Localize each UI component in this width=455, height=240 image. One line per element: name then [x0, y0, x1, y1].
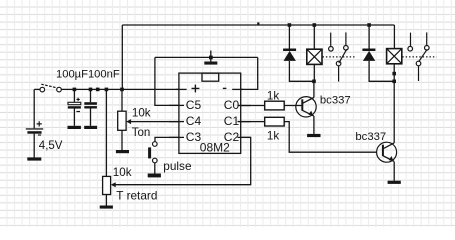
svg-text:C5: C5	[186, 98, 202, 112]
wire rail to pot1 top	[121, 89, 123, 111]
junction dot D2/K2/collector	[392, 80, 396, 84]
svg-text:4,5V: 4,5V	[39, 140, 63, 152]
wire C0 to R1	[241, 105, 265, 107]
svg-text:Ton: Ton	[132, 127, 151, 139]
potentiometer P1 10k Ton	[118, 106, 151, 138]
capacitor C2 100nF	[84, 102, 97, 108]
pin stubs left of IC	[169, 89, 187, 137]
ground P1	[116, 150, 129, 153]
wire relay coil K1 top stub	[313, 25, 315, 49]
wire top V+ rail	[122, 24, 394, 26]
battery B1 4,5V	[26, 121, 63, 152]
wire pot1 bottom to ground	[121, 130, 123, 150]
svg-text:08M2: 08M2	[200, 140, 230, 154]
svg-text:C0: C0	[224, 98, 240, 112]
svg-text:10k: 10k	[113, 166, 132, 179]
wire C2 to pot2 wiper	[115, 137, 251, 184]
wire diode D2 stem top	[368, 25, 370, 49]
svg-text:1k: 1k	[267, 90, 279, 103]
svg-text:bc337: bc337	[355, 131, 386, 143]
wire relay coil K2 top stub	[393, 25, 395, 49]
wire Q1 emitter to ground	[313, 116, 315, 134]
svg-text:C4: C4	[186, 114, 202, 128]
svg-text:T retard: T retard	[116, 189, 157, 203]
IC pin label plus	[192, 85, 200, 93]
ground Q1 emitter	[307, 134, 320, 137]
junction dot D1/K1/collector	[312, 80, 316, 84]
wire C1 to R2	[241, 121, 265, 123]
wire diode D2 bottom to junction	[369, 61, 394, 81]
wire Q2 emitter to ground	[393, 162, 395, 181]
ground battery	[27, 157, 41, 160]
relay contacts K1	[323, 32, 357, 81]
svg-text:bc337: bc337	[320, 94, 351, 106]
capacitor C1 100uF	[68, 98, 81, 112]
IC pin labels	[186, 98, 240, 154]
potentiometer P2 10k T retard	[103, 166, 158, 203]
wire diode D1 bottom to junction	[289, 61, 314, 81]
svg-text:C1: C1	[224, 114, 240, 128]
pin stubs right of IC	[232, 89, 251, 137]
wire R1 to Q1 base	[284, 105, 302, 107]
wire battery to switch	[34, 88, 40, 90]
wire C3 to pulse button	[155, 137, 179, 141]
wire 0V left drop to C5	[155, 57, 179, 105]
pin dot below K2	[392, 72, 396, 76]
transistor Q1 bc337	[296, 94, 351, 117]
wire 100uF bottom stem	[73, 109, 75, 126]
wire 100nF bottom stem	[90, 109, 92, 126]
wire Q2 collector long	[393, 81, 395, 143]
IC pin label minus	[223, 87, 227, 89]
ground Q2 emitter	[388, 181, 401, 184]
wire left drop from top rail to main rail	[121, 25, 123, 89]
wire battery bottom to ground	[33, 134, 35, 158]
wire 100uF top stem	[73, 89, 75, 102]
wire C4 from pot1 wiper	[130, 121, 179, 123]
relay contacts K2	[402, 32, 436, 81]
ground pulse	[148, 174, 161, 178]
wire battery top	[33, 89, 35, 128]
wire 0V right drop to minus pin	[241, 57, 258, 89]
op IC U1 PICAXE 08M2 body	[179, 73, 241, 153]
wire relay coil K2 bottom stub	[393, 64, 395, 82]
wire pulse button to ground	[154, 163, 156, 174]
svg-text:10k: 10k	[132, 106, 151, 119]
ground C2	[84, 126, 97, 129]
svg-text:100µF100nF: 100µF100nF	[56, 68, 120, 80]
diode D2	[362, 49, 375, 61]
wire switch to IC plus pin (main V+ rail)	[61, 88, 179, 90]
resistor R1 1k	[265, 90, 285, 110]
wire 0V rail	[155, 56, 258, 58]
relay coil K2	[387, 49, 402, 64]
wire rail to pot2 top	[105, 89, 107, 176]
transistor Q2 bc337	[355, 131, 396, 162]
svg-text:pulse: pulse	[163, 159, 192, 173]
wire Q1 collector	[313, 81, 315, 97]
resistor R2 1k	[265, 117, 285, 142]
wire diode D1 stem top	[288, 25, 290, 49]
junction dots on V+ rail	[73, 88, 124, 92]
pushbutton pulse	[148, 142, 192, 174]
ground C1	[68, 126, 81, 129]
wire pot2 bottom stem	[105, 195, 107, 206]
ground above IC	[204, 51, 217, 65]
wire R2 to Q2 base	[284, 122, 376, 153]
junction dots on top rail	[257, 22, 371, 26]
ground P2	[100, 206, 113, 209]
relay coil K1	[307, 49, 322, 64]
diode D1	[283, 49, 296, 61]
wire relay coil K1 bottom stub	[313, 64, 315, 81]
svg-text:1k: 1k	[267, 129, 279, 142]
wire 100nF top stem	[90, 89, 92, 102]
switch S1	[40, 84, 61, 92]
